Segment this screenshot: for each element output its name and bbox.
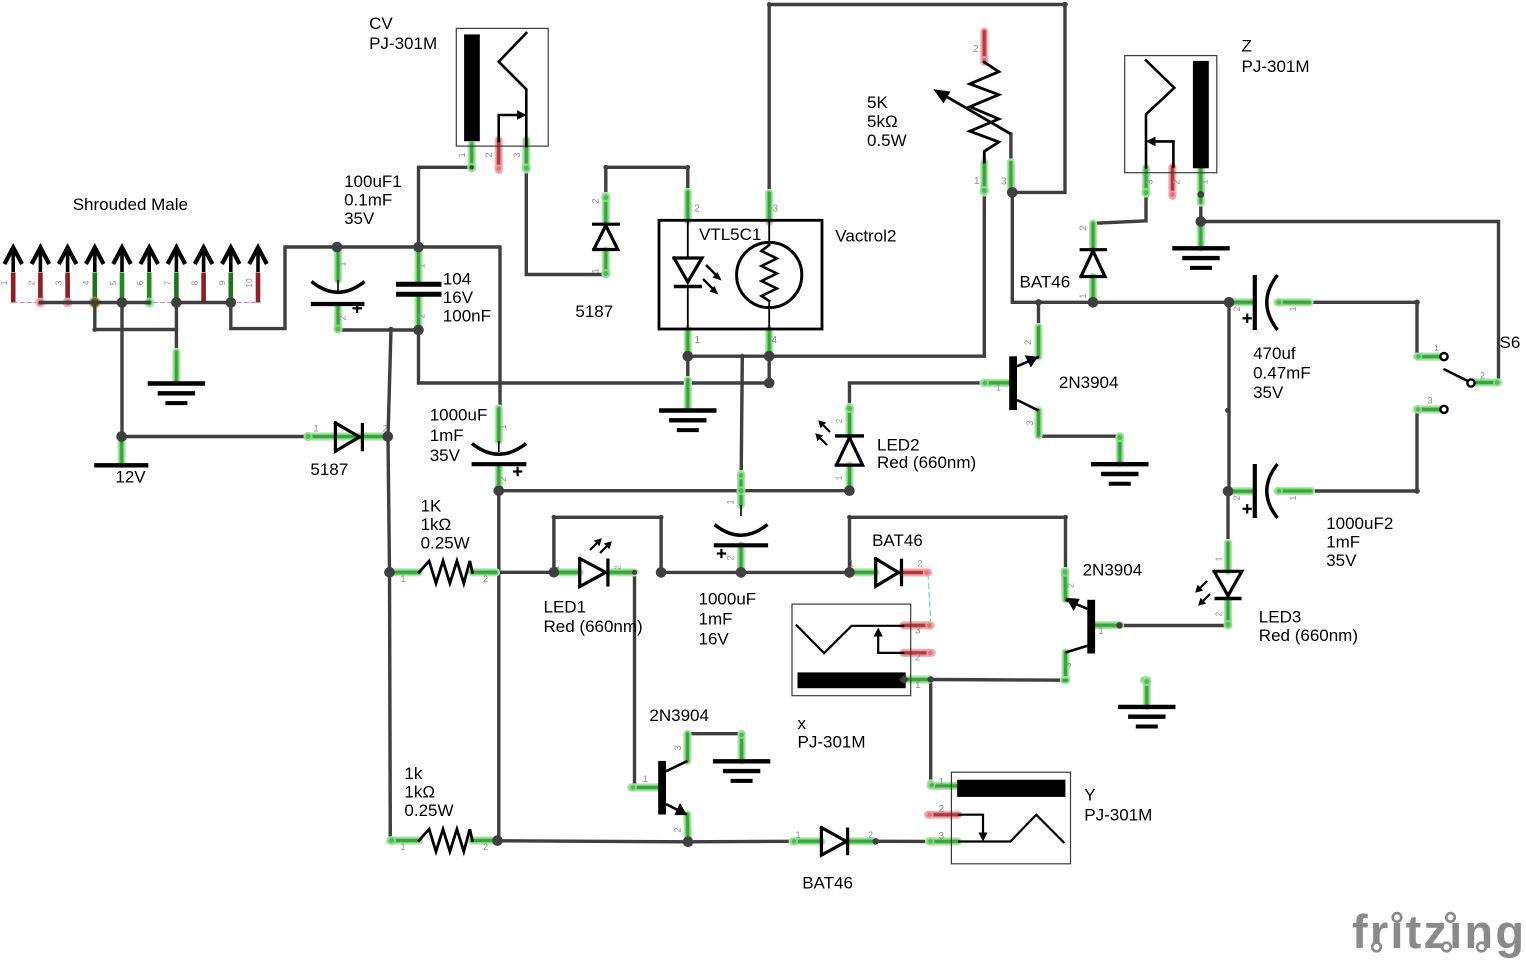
svg-text:1: 1 — [1288, 495, 1298, 500]
svg-text:2: 2 — [1215, 611, 1224, 616]
green Y pin1 — [927, 784, 935, 786]
diode D5 BAT46 symbol — [821, 828, 846, 856]
wire LED1 cathode down to Q2 base — [633, 572, 636, 784]
svg-text:x: x — [798, 714, 807, 733]
svg-text:3: 3 — [773, 204, 779, 215]
wire LED1 bypass loop — [554, 517, 661, 572]
green C5 pin2 — [1228, 487, 1254, 495]
green CV pin1 — [468, 144, 476, 169]
svg-text:PJ-301M: PJ-301M — [1084, 806, 1152, 825]
green x pin1 — [906, 675, 930, 683]
svg-text:0.47mF: 0.47mF — [1253, 364, 1311, 383]
resistor R2 1k symbol — [419, 829, 472, 851]
transistor Q3 2N3904 symbol — [1087, 600, 1095, 654]
wire Q1 base left to LED2 — [850, 383, 984, 407]
green CV pin3 — [522, 140, 530, 170]
green G5 lead — [737, 734, 745, 761]
svg-text:1: 1 — [996, 383, 1001, 393]
svg-text:3: 3 — [512, 152, 522, 157]
svg-text:4: 4 — [772, 335, 778, 346]
wire D2 cathode to VTL pin2 — [606, 167, 688, 196]
green Q1 coll pin3 — [1034, 411, 1042, 436]
svg-text:2: 2 — [915, 653, 921, 664]
green LED2 pin bottom — [845, 466, 853, 491]
svg-text:2: 2 — [483, 842, 488, 852]
green LED1 pin1 — [554, 568, 580, 576]
svg-text:3: 3 — [1001, 177, 1007, 188]
wire cap junction to 100uF1 pin2 — [338, 328, 419, 331]
svg-text:1: 1 — [1215, 556, 1224, 561]
capacitor C7 1000uF 16V symbol — [740, 505, 742, 516]
wire header bus pins2-6 — [40, 301, 149, 304]
wire R1 pin2 to LED1 anode — [496, 571, 554, 574]
green D5 pin1 — [793, 837, 822, 845]
svg-text:1kΩ: 1kΩ — [404, 783, 435, 802]
wire Q1 collector to ground G3 — [1039, 411, 1120, 437]
green S6 pin3 stub — [1417, 405, 1441, 413]
svg-text:3: 3 — [1063, 662, 1073, 667]
wire rail C1 to C2 junction — [337, 245, 419, 248]
svg-text:7: 7 — [162, 280, 172, 285]
green S6 pin2 stub — [1475, 378, 1499, 386]
jack CV PJ-301M symbol — [456, 28, 548, 146]
green Y pin3 — [929, 837, 958, 845]
wire VTL pin1 to pin4 joint — [688, 355, 769, 358]
wire D5 cathode to Y pin3 — [875, 840, 930, 844]
wire long y383 to cap junction — [419, 330, 770, 383]
green Q2 emitter pin2 — [683, 815, 692, 842]
svg-text:12V: 12V — [115, 468, 146, 487]
optocoupler U1 VTL5C1 symbol — [659, 220, 822, 329]
svg-text:2: 2 — [726, 555, 736, 560]
green Q2 coll pin3 — [683, 734, 691, 761]
wire C4 pin1 to S6 pin1 — [1310, 302, 1442, 356]
svg-text:35V: 35V — [344, 209, 375, 228]
svg-text:5187: 5187 — [310, 460, 348, 479]
svg-text:3: 3 — [1025, 420, 1035, 425]
wire pot pin1 down to pin4 rail — [769, 193, 984, 356]
wire pin9 to top-left rail — [231, 247, 337, 329]
wire rail to cap C3 pin1 — [419, 247, 501, 409]
svg-text:2: 2 — [498, 476, 508, 481]
svg-text:1k: 1k — [404, 764, 422, 783]
svg-text:1: 1 — [1434, 343, 1439, 353]
svg-text:BAT46: BAT46 — [872, 531, 923, 550]
svg-text:1000uF: 1000uF — [699, 590, 757, 609]
green D5 pin2 — [848, 837, 874, 845]
svg-text:S6: S6 — [1500, 333, 1521, 352]
green D2 pin2 — [602, 196, 610, 224]
svg-text:1: 1 — [849, 559, 854, 569]
ground G2 — [661, 408, 714, 412]
wire D1 junction down to R1 pin1 — [388, 437, 390, 573]
svg-text:1: 1 — [643, 774, 648, 784]
wire R1 pin1 down to R2 pin1 — [388, 572, 392, 839]
svg-text:3: 3 — [1428, 396, 1433, 406]
green C4 pin2 — [1229, 298, 1254, 306]
wire endpoint dots — [1035, 299, 1041, 305]
svg-text:1: 1 — [835, 475, 844, 480]
green 100uF1 pin1 — [334, 250, 342, 280]
green D4 pin1 — [853, 568, 876, 576]
potentiometer R3 5K symbol — [970, 62, 999, 162]
green Q3 pin2 — [1061, 571, 1070, 600]
svg-text:9: 9 — [217, 280, 227, 285]
svg-text:104: 104 — [443, 270, 471, 289]
wire VTL pin1 branch down to C7 pin1 — [741, 356, 742, 474]
wire Q1 emitter up — [1037, 302, 1040, 327]
green VTL pin3 — [765, 193, 773, 222]
pin glows — [35, 298, 45, 308]
red D4 pin2 — [902, 568, 929, 576]
svg-text:5kΩ: 5kΩ — [867, 112, 898, 131]
svg-text:1: 1 — [915, 680, 921, 691]
svg-text:2: 2 — [973, 44, 979, 55]
svg-text:1K: 1K — [421, 497, 442, 516]
svg-text:5K: 5K — [867, 93, 888, 112]
capacitor C4 470uf symbol — [1253, 275, 1257, 330]
wire VTL pin3 top loop to pot — [769, 5, 1065, 194]
svg-text:Y: Y — [1084, 786, 1095, 805]
green Z pin3 — [1142, 168, 1150, 194]
svg-text:0.25W: 0.25W — [421, 534, 470, 553]
svg-text:Vactrol2: Vactrol2 — [835, 226, 896, 245]
wire pin4 down-right to pin7 column — [95, 303, 177, 330]
svg-text:2: 2 — [338, 315, 348, 320]
ground G1 — [150, 381, 203, 385]
svg-text:2N3904: 2N3904 — [1059, 373, 1119, 392]
wire CV pin3 to D2 anode — [526, 170, 606, 275]
connector J1 Shrouded Male pin arrows — [11, 248, 15, 272]
svg-text:1mF: 1mF — [699, 610, 733, 629]
svg-text:PJ-301M: PJ-301M — [369, 34, 437, 53]
ground G5 — [715, 759, 768, 763]
green C4 pin1 — [1278, 298, 1310, 306]
LED LED3 symbol — [1214, 571, 1242, 596]
wire Z pin1 down — [1199, 195, 1202, 222]
wire bottom bus R2 to Q2 emitter — [498, 841, 689, 842]
svg-text:5187: 5187 — [575, 302, 613, 321]
red x pin2 — [903, 649, 932, 657]
wire D4 node up loop to Q3 emitter feed — [850, 517, 1066, 572]
svg-text:1: 1 — [939, 777, 945, 788]
svg-text:6: 6 — [135, 280, 145, 285]
svg-text:Z: Z — [1242, 37, 1252, 56]
svg-text:VTL5C1: VTL5C1 — [699, 225, 761, 244]
green S6 pin1 stub — [1417, 353, 1441, 361]
svg-text:1: 1 — [401, 842, 406, 852]
svg-text:16V: 16V — [699, 630, 730, 649]
green LED3 pin2 — [1224, 599, 1232, 626]
wire pot wiper down — [1009, 134, 1012, 162]
wire bottom bus Q2 to D5 anode — [688, 840, 793, 844]
resistor R1 1K symbol — [419, 561, 472, 583]
svg-text:2: 2 — [484, 152, 494, 157]
ratsnest dashed line — [13, 302, 258, 304]
svg-text:1: 1 — [726, 499, 736, 504]
svg-text:2: 2 — [1480, 371, 1485, 381]
green D3 pin1 — [1089, 277, 1097, 302]
svg-text:2: 2 — [939, 804, 945, 815]
svg-text:1: 1 — [974, 176, 980, 187]
green C7 pin2 — [737, 546, 745, 573]
jack Z PJ-301M symbol — [1125, 56, 1217, 173]
green G4 lead — [1197, 222, 1205, 248]
jack x PJ-301M symbol — [792, 604, 911, 696]
svg-text:470uf: 470uf — [1253, 344, 1296, 363]
svg-text:2: 2 — [26, 280, 36, 285]
wire Q2 collector to ground G5 — [687, 732, 741, 735]
capacitor C2 104 symbol — [396, 282, 441, 287]
svg-text:2: 2 — [1078, 225, 1088, 230]
svg-text:1000uF2: 1000uF2 — [1326, 514, 1393, 533]
svg-text:1: 1 — [1078, 293, 1088, 298]
ground G4 — [1175, 246, 1228, 250]
wire loop to C7 node — [661, 571, 741, 574]
svg-text:2: 2 — [835, 418, 844, 423]
svg-text:1: 1 — [591, 268, 601, 273]
diode D1 5187 symbol — [335, 423, 359, 451]
wire C4 node down to C5 node — [1227, 302, 1230, 491]
green Q1 emitter pin2 — [1034, 327, 1042, 357]
capacitor C5 1000uF2 symbol — [1253, 464, 1257, 518]
svg-text:2: 2 — [591, 198, 601, 203]
green G3 lead — [1116, 436, 1124, 463]
svg-text:1: 1 — [417, 263, 427, 268]
wire C5 pin1 to S6 pin3 — [1311, 409, 1441, 491]
wire 12V node to D1 anode — [122, 435, 308, 438]
svg-text:4: 4 — [81, 280, 91, 285]
green G6 corner — [1144, 676, 1147, 684]
LED LED2 symbol — [835, 434, 864, 437]
green pot pin1 — [980, 163, 988, 193]
wire Z pin1 node to S6 pin2 — [1201, 222, 1499, 383]
diode D4 BAT46 symbol — [876, 559, 899, 587]
green C5 pin1 — [1278, 487, 1312, 495]
svg-text:1kΩ: 1kΩ — [421, 515, 452, 534]
svg-text:16V: 16V — [443, 288, 474, 307]
green D2 pin1 — [602, 251, 610, 275]
connector J1 pin stems — [11, 273, 16, 303]
wire bottom mid bus x-Q3 — [931, 678, 1064, 682]
svg-text:2: 2 — [1232, 306, 1242, 311]
svg-text:LED3: LED3 — [1259, 607, 1302, 626]
wire C5 node to LED3 anode — [1226, 491, 1229, 543]
svg-text:3: 3 — [1145, 179, 1155, 184]
capacitor C1 100uF1 symbol — [337, 280, 339, 292]
wire pot node down to Q1 rail — [1012, 192, 1229, 302]
green LED1 pin2 — [610, 568, 635, 576]
green G1 lead — [172, 352, 180, 382]
svg-text:5: 5 — [108, 280, 118, 285]
junction dots — [116, 431, 127, 442]
svg-text:2: 2 — [417, 313, 427, 318]
svg-text:35V: 35V — [430, 446, 461, 465]
green VTL pin2 — [684, 192, 692, 221]
wire VTL pin1 to ground G2 — [686, 356, 689, 380]
svg-text:2: 2 — [918, 559, 923, 569]
svg-text:2: 2 — [673, 827, 683, 832]
red Y pin2 — [928, 811, 958, 819]
wire C7 node to BAT46-D4 node — [741, 571, 850, 574]
svg-text:2: 2 — [614, 565, 623, 570]
header junction dots — [117, 297, 128, 308]
jack Y PJ-301M symbol — [951, 772, 1070, 864]
green LED2 pin top — [845, 407, 853, 436]
green R2 pin1 — [390, 836, 419, 844]
capacitor C3 1000uF 35V symbol — [498, 441, 500, 452]
green Q3 base — [1095, 621, 1120, 629]
svg-text:3: 3 — [939, 831, 945, 842]
svg-text:Red (660nm): Red (660nm) — [544, 617, 643, 636]
svg-text:PJ-301M: PJ-301M — [1242, 57, 1310, 76]
green 104 pin2 — [414, 297, 422, 329]
wire header bus pins7-9 — [176, 301, 230, 304]
svg-text:2N3904: 2N3904 — [1083, 560, 1143, 579]
green VTL pin4 — [765, 330, 773, 355]
diode D2 5187 symbol — [592, 223, 620, 226]
svg-text:1: 1 — [457, 152, 467, 157]
svg-text:8: 8 — [190, 280, 200, 285]
svg-text:10: 10 — [244, 278, 254, 288]
svg-text:1: 1 — [314, 424, 319, 434]
green R1 pin2 — [472, 568, 496, 576]
green 104 pin1 — [414, 250, 422, 281]
wire diag to diode D1 junction — [388, 329, 391, 436]
ground G6 — [1120, 705, 1173, 709]
green D6 pin2 mid bus — [1064, 676, 1067, 684]
svg-text:1: 1 — [1099, 626, 1104, 636]
svg-text:100nF: 100nF — [443, 306, 491, 325]
svg-text:BAT46: BAT46 — [1020, 273, 1071, 292]
svg-text:3: 3 — [915, 625, 921, 636]
dashed cyan ratsnest — [928, 575, 931, 623]
green 100uF1 pin2 — [334, 306, 342, 329]
red Z pin2 — [1168, 167, 1176, 196]
transistor Q2 2N3904 symbol — [658, 761, 666, 815]
wire C6 vert cross to R2 node — [497, 572, 500, 840]
red CV pin2 — [495, 140, 503, 170]
green Q3 pin3 — [1061, 653, 1069, 681]
svg-text:CV: CV — [369, 14, 393, 33]
svg-text:1: 1 — [1199, 179, 1209, 184]
svg-text:35V: 35V — [1326, 551, 1357, 570]
green D1 through — [308, 432, 387, 440]
svg-text:1: 1 — [498, 424, 508, 429]
green D3 pin2 — [1089, 223, 1097, 250]
green R1 pin1 — [395, 568, 420, 576]
svg-text:1: 1 — [695, 335, 701, 346]
wire pin4 joint down — [768, 356, 771, 383]
red x pin3 — [903, 621, 931, 629]
svg-text:2: 2 — [1023, 340, 1033, 345]
svg-text:2: 2 — [868, 830, 873, 840]
green Z pin1 — [1197, 168, 1205, 203]
svg-text:LED1: LED1 — [544, 598, 587, 617]
svg-text:35V: 35V — [1253, 383, 1284, 402]
svg-text:Shrouded Male: Shrouded Male — [73, 195, 188, 214]
svg-text:2: 2 — [483, 574, 488, 584]
svg-text:0.25W: 0.25W — [404, 801, 453, 820]
ground G3 — [1093, 462, 1146, 466]
green C6 pin1 — [495, 409, 503, 442]
wire LED3 cathode to Q3 base — [1120, 624, 1229, 627]
wire CV pin1 down — [419, 167, 472, 247]
svg-text:1mF: 1mF — [430, 426, 464, 445]
green 12V lead — [117, 437, 125, 465]
svg-text:3: 3 — [673, 745, 683, 750]
svg-text:2N3904: 2N3904 — [649, 706, 709, 725]
wire C6 node down to R1 node — [497, 491, 500, 573]
svg-text:Red (660nm): Red (660nm) — [1259, 626, 1358, 645]
svg-text:PJ-301M: PJ-301M — [798, 733, 866, 752]
svg-text:1: 1 — [796, 830, 801, 840]
green R2 pin2 — [472, 836, 498, 844]
green pot pin3 — [1007, 163, 1015, 192]
svg-text:3: 3 — [54, 280, 64, 285]
svg-text:Red (660nm): Red (660nm) — [877, 453, 976, 472]
wire LED2 anode to cap C6 rail — [499, 489, 850, 492]
green Q1 base pin1 — [984, 379, 1013, 387]
svg-text:1mF: 1mF — [1326, 533, 1360, 552]
svg-text:1: 1 — [1288, 306, 1298, 311]
diode D3 BAT46 symbol — [1080, 248, 1107, 251]
green C7 pin1 — [737, 474, 745, 505]
svg-text:BAT46: BAT46 — [802, 873, 853, 892]
green Q2 base — [631, 783, 659, 791]
green C6 pin2 — [495, 466, 503, 491]
svg-text:2: 2 — [1066, 583, 1076, 588]
green VTL pin1 — [684, 330, 692, 355]
green G2 lead — [684, 380, 692, 409]
svg-text:2: 2 — [1232, 495, 1242, 500]
green LED3 pin1 — [1224, 543, 1232, 571]
svg-text:0.5W: 0.5W — [867, 131, 907, 150]
wire pin5 down to 12V node — [120, 303, 123, 437]
svg-text:1: 1 — [0, 280, 9, 285]
red pot pin2 — [980, 32, 988, 63]
svg-text:1: 1 — [401, 574, 406, 584]
svg-text:2: 2 — [1172, 179, 1182, 184]
wire pin7 down to ground G1 — [175, 303, 178, 353]
svg-text:1: 1 — [338, 261, 348, 266]
svg-text:2: 2 — [694, 204, 700, 215]
svg-text:1000uF: 1000uF — [430, 406, 488, 425]
switch S6 symbol — [1445, 370, 1472, 383]
wire BAT46-D3 cathode to Z pin3 — [1093, 194, 1146, 223]
LED LED1 symbol — [580, 559, 606, 587]
wire x pin1 down to Y pin1 — [929, 680, 932, 784]
transistor Q1 2N3904 symbol — [1009, 356, 1017, 410]
svg-text:0.1mF: 0.1mF — [344, 191, 392, 210]
battery 12V symbol — [94, 463, 148, 467]
svg-text:100uF1: 100uF1 — [344, 172, 402, 191]
